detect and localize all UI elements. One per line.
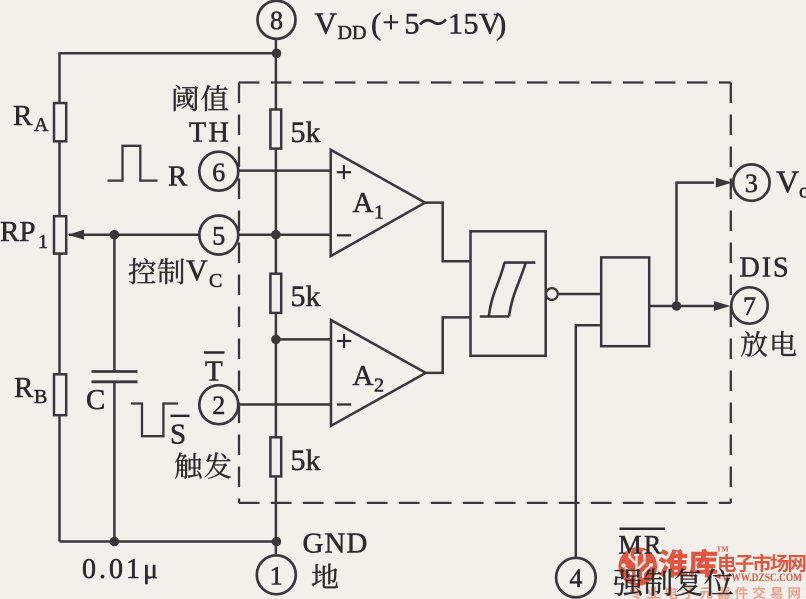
wire pin5 to A1- [238,233,331,236]
output buffer box [601,257,649,346]
svg-text:V: V [776,164,799,200]
wire cap bottom lead [113,382,116,542]
svg-text:DD: DD [338,22,367,44]
wire bubble to buffer [558,293,601,296]
pin 4 MR [556,558,596,598]
wire pin2 to A2- [238,403,331,406]
svg-text:A: A [353,360,374,392]
svg-text:WWW.DZSC.COM: WWW.DZSC.COM [722,570,802,584]
svg-text:5: 5 [405,8,420,41]
node output junction [672,301,682,311]
svg-text:TH: TH [189,118,231,149]
wire VDD top [60,52,277,55]
pin 1 GND [257,555,296,594]
wire A2 out to schmitt [426,317,471,373]
svg-text:GND: GND [303,528,369,560]
svg-text:): ) [496,6,506,41]
wire junction up to pin3 [677,183,715,306]
schmitt trigger U1 box [471,231,546,355]
wire pin8 down [275,38,278,110]
resistor RB [54,374,66,415]
svg-text:3: 3 [745,169,758,198]
op-amp A2 [331,320,426,426]
capacitor C [92,370,138,373]
svg-text:5k: 5k [291,116,321,149]
resistor R2 5k [270,274,281,313]
wire RA to RP1 [58,141,61,216]
svg-text:1: 1 [270,562,283,591]
waveform negative pulse [131,404,178,437]
resistor RA [54,103,66,141]
watermark brand name [659,550,687,578]
wire chain tap to A2+ [276,338,331,341]
svg-text:A: A [34,114,49,136]
node chain tap 2/3Vdd [271,230,281,240]
wire ground rail [60,540,277,543]
label control Vc [129,258,156,284]
svg-text:1: 1 [374,202,384,224]
waveform positive pulse [108,146,158,181]
node chain tap 1/3Vdd [271,335,281,345]
svg-text:8: 8 [270,6,283,35]
svg-text:C: C [209,270,222,292]
svg-text:R: R [13,100,33,132]
svg-text:7: 7 [743,292,756,321]
svg-text:5: 5 [212,222,225,251]
svg-text:5k: 5k [291,280,321,313]
pin 3 Vo [733,164,769,200]
A1 minus input marking [337,234,351,236]
svg-text:R: R [14,372,34,404]
label threshold [174,85,198,111]
svg-text:TM: TM [717,545,729,554]
wire RB to ground rail [58,415,61,541]
arrowhead to pin3 [716,178,733,188]
wire R3 to ground [275,476,278,555]
potentiometer RP1 [54,216,66,253]
svg-text:B: B [34,386,47,408]
svg-text:V: V [315,6,338,41]
op-amp A1 [331,150,425,256]
pin 2 trigger [199,385,238,424]
svg-text:1: 1 [38,231,48,253]
label ground [312,564,338,589]
svg-text:+: + [383,6,400,39]
wire R2 to R3 [275,313,278,438]
node ground junction [272,537,282,547]
svg-text:o: o [799,179,806,203]
svg-text:RP: RP [0,216,35,248]
inversion bubble [546,288,558,300]
node VDD junction [272,49,282,59]
svg-text:15V: 15V [448,8,501,41]
A2 minus input marking [337,403,351,405]
svg-text:4: 4 [569,564,582,593]
svg-text:T: T [205,356,223,388]
wire RP1 to RB [58,254,61,375]
arrowhead RP1 wiper [68,230,85,240]
wire cap top lead [113,235,116,372]
svg-text:0.01μ: 0.01μ [82,554,161,585]
resistor R1 5k [270,110,281,149]
svg-text:6: 6 [212,158,225,187]
pin 7 DIS [731,287,767,323]
wire pin6 to A1+ [238,169,331,172]
wire MR to buffer [576,325,601,558]
svg-text:2: 2 [374,375,384,397]
svg-text:A: A [353,187,374,219]
wire buffer to pin7 [649,305,714,308]
A2 plus input marking [337,340,351,342]
pin 6 TH [199,152,238,191]
pin 8 VDD [258,1,296,39]
IC boundary dashed box [239,83,731,503]
wire A1 out to schmitt [425,203,470,262]
svg-text:R: R [168,161,188,193]
label trigger [175,453,201,479]
watermark url arrow [714,573,720,579]
label discharge [741,331,767,357]
svg-text:S: S [170,419,186,451]
svg-text:2: 2 [212,391,225,420]
A1 plus input marking [337,171,351,173]
svg-text:(: ( [371,6,381,41]
arrowhead to pin7 [714,301,731,311]
wire pin5 to RP1 wiper [69,233,200,236]
schmitt hysteresis symbol [480,263,536,317]
svg-text:DIS: DIS [740,253,791,284]
pin 5 Vc [199,216,238,255]
resistor R3 5k [270,437,281,476]
svg-text:MR: MR [619,531,664,560]
node control cap junction [110,230,120,240]
wire R1 to R2 [275,149,278,274]
watermark logo circle [619,547,658,586]
node cap ground junction [110,537,120,547]
svg-text:V: V [186,254,208,287]
wire left chain top [58,52,61,104]
svg-text:5k: 5k [291,444,321,477]
watermark slogan [630,586,642,599]
label forced reset [614,569,642,596]
watermark site name [719,554,736,572]
svg-text:C: C [86,384,105,416]
